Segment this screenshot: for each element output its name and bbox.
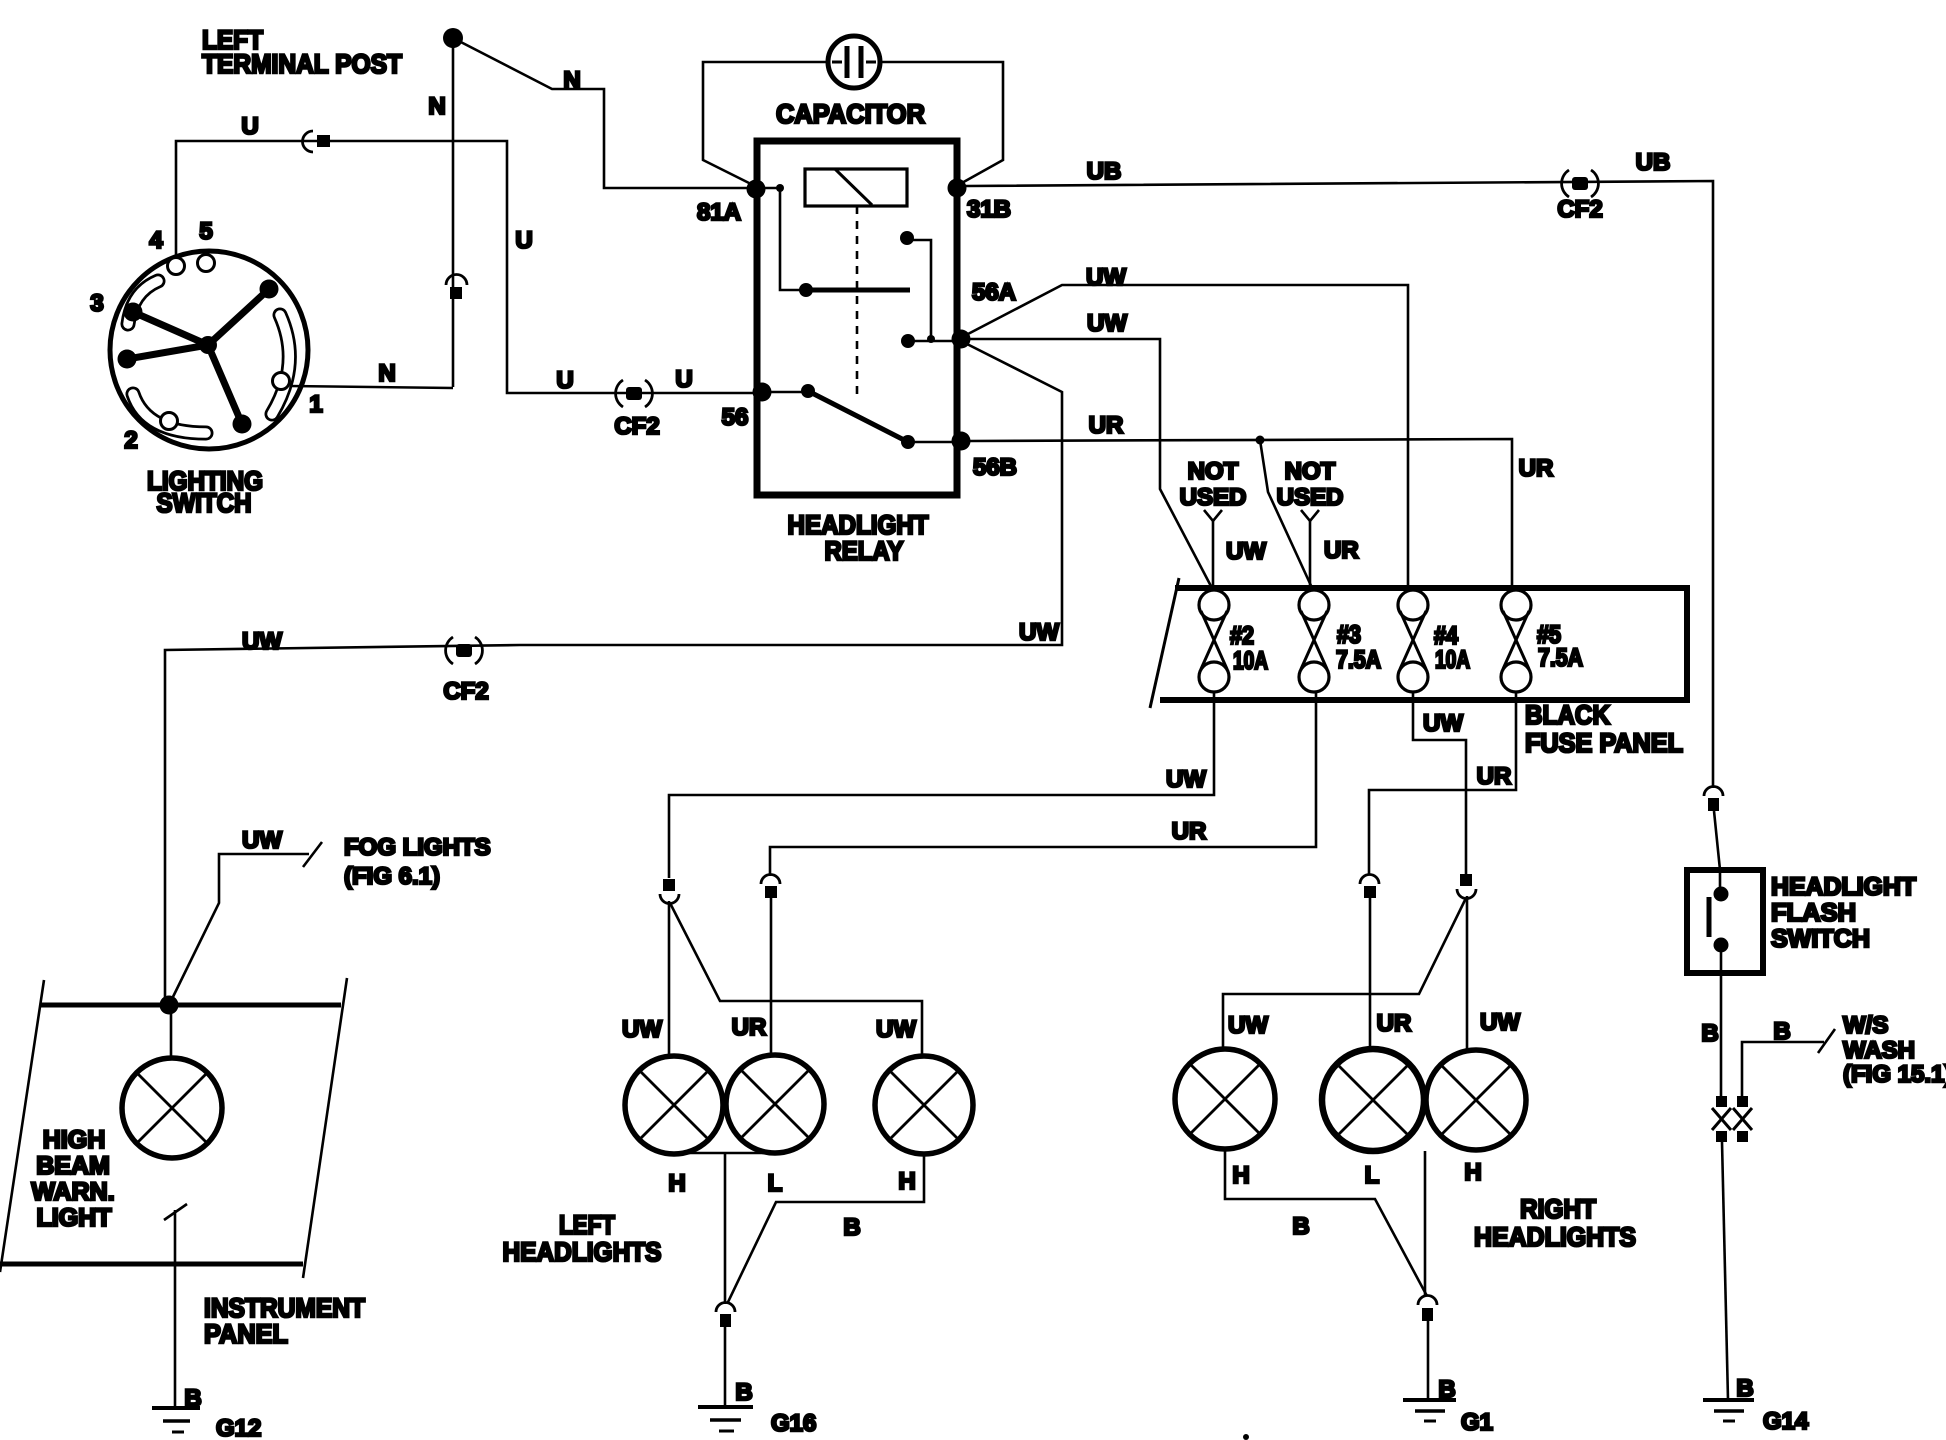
- right inner high beam lamp H: [1175, 1049, 1275, 1149]
- svg-text:FUSE PANEL: FUSE PANEL: [1525, 728, 1683, 758]
- connector on UB wire above flash switch: [1704, 787, 1723, 898]
- ground G12: [152, 1385, 261, 1440]
- svg-text:U: U: [675, 366, 692, 393]
- connector on right B wire: [1418, 1296, 1437, 1401]
- svg-text:56: 56: [722, 404, 749, 431]
- svg-text:10A: 10A: [1233, 647, 1268, 675]
- fuse #5 7.5A: [1501, 590, 1583, 692]
- svg-text:3: 3: [90, 290, 103, 317]
- svg-text:UB: UB: [1087, 158, 1122, 185]
- wire B flash switch down: [1701, 945, 1721, 1096]
- svg-text:TERMINAL POST: TERMINAL POST: [202, 49, 402, 79]
- svg-text:UW: UW: [1423, 710, 1463, 737]
- svg-text:L: L: [1365, 1162, 1380, 1189]
- left low beam lamp L: [726, 1055, 824, 1153]
- svg-text:G1: G1: [1461, 1409, 1493, 1436]
- svg-text:UR: UR: [1519, 455, 1554, 482]
- left high beam lamp H: [625, 1056, 723, 1154]
- svg-text:H: H: [668, 1170, 685, 1197]
- fuse #4 10A: [1398, 590, 1470, 692]
- svg-text:7.5A: 7.5A: [1336, 646, 1381, 674]
- wire UB relay 31B to headlight flash switch: [966, 149, 1713, 788]
- high beam warning light: [31, 1005, 222, 1232]
- svg-text:W/S: W/S: [1843, 1012, 1888, 1039]
- svg-text:N: N: [378, 360, 395, 387]
- svg-text:G12: G12: [216, 1415, 261, 1440]
- svg-text:RELAY: RELAY: [825, 536, 904, 566]
- svg-text:7.5A: 7.5A: [1538, 644, 1583, 672]
- right outer high beam lamp H: [1426, 1050, 1526, 1150]
- svg-text:B: B: [184, 1385, 201, 1412]
- headlight relay: [697, 141, 1017, 566]
- relay coil: [805, 169, 907, 206]
- stray printed dot: [1243, 1434, 1249, 1440]
- terminal 81A: [747, 180, 766, 199]
- headlight flash switch: [1687, 870, 1916, 973]
- ground G14: [1703, 1375, 1809, 1435]
- wire B left headlights to ground: [674, 1153, 924, 1304]
- wire N terminal post to relay 81A: [453, 38, 748, 188]
- svg-text:N: N: [428, 93, 445, 120]
- svg-text:1: 1: [309, 391, 322, 418]
- svg-text:FLASH: FLASH: [1771, 899, 1856, 927]
- svg-text:UW: UW: [242, 827, 282, 854]
- svg-text:B: B: [1292, 1213, 1309, 1240]
- svg-text:H: H: [1232, 1162, 1249, 1189]
- wire U lighting switch terminal 4 to relay 56: [176, 113, 753, 394]
- switch contact 2: [161, 413, 178, 430]
- svg-text:RIGHT: RIGHT: [1520, 1194, 1596, 1224]
- svg-text:5: 5: [199, 218, 212, 245]
- lighting switch: [90, 218, 322, 518]
- wire UW fuse 4 to right headlights: [1413, 692, 1466, 874]
- svg-text:UW: UW: [1226, 538, 1266, 565]
- wire B right headlights to ground: [1225, 1149, 1427, 1296]
- svg-text:B: B: [1701, 1020, 1718, 1047]
- switch slot top-left: [128, 281, 158, 324]
- ground G1: [1403, 1376, 1493, 1436]
- svg-text:UR: UR: [1477, 763, 1512, 790]
- wire B connector to ground G14: [1722, 1142, 1728, 1400]
- svg-text:WARN.: WARN.: [31, 1178, 114, 1206]
- multi-pin connector below flash switch: [1712, 1096, 1752, 1142]
- relay armature lower (56 to 56B): [801, 384, 815, 398]
- wire N terminal post down to lighting switch: [428, 38, 453, 387]
- switch contact 1: [273, 373, 290, 390]
- svg-text:UW: UW: [1087, 310, 1127, 337]
- svg-text:UW: UW: [1086, 264, 1126, 291]
- relay coil feed from 81A: [776, 184, 784, 192]
- wire N lighting switch terminal 1: [290, 360, 453, 388]
- svg-text:CF2: CF2: [614, 413, 659, 440]
- svg-text:31B: 31B: [967, 196, 1011, 223]
- connector on N wire: [446, 275, 467, 300]
- svg-text:B: B: [843, 1214, 860, 1241]
- left outer high beam lamp H: [875, 1056, 973, 1154]
- switch contact 4: [168, 258, 185, 275]
- connector on left B wire: [716, 1303, 735, 1407]
- svg-text:HEADLIGHT: HEADLIGHT: [1771, 873, 1916, 901]
- svg-text:#3: #3: [1337, 621, 1361, 649]
- not used terminal above fuse 3: [1277, 458, 1359, 590]
- svg-text:SWITCH: SWITCH: [157, 488, 252, 518]
- connector CF2 on UB wire: [1557, 170, 1602, 223]
- wire B instrument panel to ground: [164, 1204, 187, 1407]
- svg-text:56A: 56A: [972, 279, 1016, 306]
- svg-text:H: H: [1464, 1159, 1481, 1186]
- connector on right headlight UW wire: [1223, 874, 1476, 1050]
- svg-text:G16: G16: [771, 1410, 816, 1437]
- svg-text:PANEL: PANEL: [204, 1319, 288, 1349]
- svg-text:SWITCH: SWITCH: [1771, 925, 1870, 953]
- svg-text:UR: UR: [1377, 1010, 1412, 1037]
- svg-text:UW: UW: [1228, 1012, 1268, 1039]
- svg-text:HEADLIGHTS: HEADLIGHTS: [503, 1237, 662, 1267]
- connector on right low beam UR wire: [1360, 875, 1379, 1049]
- connector CF2 on long UW wire: [443, 637, 488, 705]
- svg-text:CF2: CF2: [443, 678, 488, 705]
- connector on left headlight UW wire: [660, 879, 922, 1056]
- wire UW 56A to fuse 2: [970, 310, 1213, 590]
- svg-text:HEADLIGHTS: HEADLIGHTS: [1474, 1222, 1636, 1252]
- wire UW fuse 2 to left headlights: [669, 692, 1214, 878]
- svg-text:BLACK: BLACK: [1525, 700, 1610, 730]
- svg-text:LIGHT: LIGHT: [37, 1204, 112, 1232]
- svg-text:UR: UR: [1172, 818, 1207, 845]
- svg-text:U: U: [556, 367, 573, 394]
- wire UW to fog lights: [169, 827, 491, 1005]
- right headlights: [1175, 1009, 1636, 1252]
- wire UW 56A down and left to instrument panel: [165, 344, 1062, 1000]
- wire capacitor right lead to 31B: [880, 62, 1003, 184]
- not used terminal above fuse 2: [1180, 458, 1267, 590]
- instrument panel: [0, 978, 365, 1349]
- relay armature upper: [799, 283, 813, 297]
- switch rotor arms: [127, 289, 269, 424]
- svg-text:81A: 81A: [697, 199, 741, 226]
- wire B branch to windshield wash: [1742, 1012, 1946, 1096]
- svg-text:10A: 10A: [1435, 646, 1470, 674]
- svg-text:G14: G14: [1763, 1408, 1809, 1435]
- terminal 56: [753, 383, 772, 402]
- svg-text:(FIG 6.1): (FIG 6.1): [344, 863, 440, 890]
- svg-text:UW: UW: [1166, 766, 1206, 793]
- svg-text:(FIG 15.1): (FIG 15.1): [1843, 1061, 1946, 1088]
- switch contact 5: [198, 255, 215, 272]
- svg-text:USED: USED: [1277, 484, 1344, 511]
- connector on left low beam UR wire: [761, 875, 780, 1055]
- svg-text:56B: 56B: [973, 454, 1017, 481]
- fuse #3 7.5A: [1299, 590, 1381, 692]
- svg-text:U: U: [515, 227, 532, 254]
- ground G16: [698, 1379, 816, 1437]
- wire UW 56A to fuse 4: [968, 264, 1408, 590]
- relay dashed actuator line: [856, 206, 859, 400]
- svg-text:WASH: WASH: [1843, 1037, 1915, 1064]
- svg-text:UB: UB: [1636, 149, 1671, 176]
- svg-text:4: 4: [149, 227, 163, 254]
- svg-text:CAPACITOR: CAPACITOR: [776, 99, 925, 129]
- left terminal post: [202, 25, 463, 79]
- svg-text:UR: UR: [1324, 537, 1359, 564]
- junction on UR wire: [1256, 436, 1265, 445]
- wire capacitor left lead to 81A: [703, 62, 828, 185]
- svg-text:UW: UW: [242, 628, 282, 655]
- relay contact 56A side: [900, 231, 914, 245]
- connector CF2 on U wire: [614, 380, 659, 440]
- wire UR 56B to fuse 5: [970, 412, 1553, 590]
- svg-text:#2: #2: [1230, 622, 1254, 650]
- svg-text:UW: UW: [876, 1016, 916, 1043]
- node on instrument panel feed: [160, 996, 179, 1015]
- svg-text:HIGH: HIGH: [43, 1126, 106, 1154]
- terminal 31B: [948, 179, 967, 198]
- fuse #2 10A: [1199, 590, 1268, 692]
- svg-text:CF2: CF2: [1557, 196, 1602, 223]
- black fuse panel: [1150, 578, 1687, 758]
- terminal 56B: [952, 432, 971, 451]
- svg-text:FOG LIGHTS: FOG LIGHTS: [344, 834, 491, 861]
- svg-text:B: B: [1438, 1376, 1455, 1403]
- terminal 56A: [952, 330, 971, 349]
- svg-text:LEFT: LEFT: [559, 1210, 615, 1240]
- svg-text:BEAM: BEAM: [36, 1152, 110, 1180]
- svg-text:UW: UW: [1019, 619, 1059, 646]
- svg-text:B: B: [1736, 1375, 1753, 1402]
- svg-text:NOT: NOT: [1285, 458, 1336, 485]
- svg-text:2: 2: [124, 427, 137, 454]
- svg-text:UR: UR: [1089, 412, 1124, 439]
- switch slot bottom-left: [133, 394, 206, 433]
- left headlights: [503, 1014, 974, 1267]
- wire UR fuse 3 to left low beam: [770, 692, 1316, 876]
- svg-text:N: N: [563, 67, 580, 94]
- svg-text:UW: UW: [1480, 1009, 1520, 1036]
- switch slot right: [272, 315, 289, 414]
- svg-text:U: U: [241, 113, 258, 140]
- capacitor: [776, 36, 925, 129]
- svg-text:USED: USED: [1180, 484, 1247, 511]
- wire UR fuse 5 to right low beam: [1369, 692, 1516, 875]
- svg-text:NOT: NOT: [1188, 458, 1239, 485]
- connector on U wire: [303, 131, 331, 152]
- svg-text:H: H: [898, 1168, 915, 1195]
- svg-text:UW: UW: [622, 1016, 662, 1043]
- svg-text:B: B: [1773, 1018, 1790, 1045]
- svg-text:B: B: [735, 1379, 752, 1406]
- svg-text:L: L: [768, 1170, 783, 1197]
- right low beam lamp L: [1322, 1049, 1424, 1151]
- svg-text:UR: UR: [732, 1014, 767, 1041]
- wire UR branch to fuse 3: [1260, 440, 1313, 590]
